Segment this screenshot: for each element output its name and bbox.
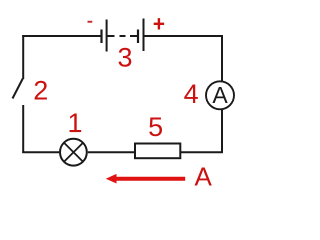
battery B (3): cell 1 short plate (negative) [100, 30, 102, 44]
svg-text:5: 5 [148, 112, 163, 142]
battery dash [120, 35, 126, 37]
lamp cross stroke 1 [64, 143, 83, 162]
lamp cross stroke 2 [64, 143, 83, 162]
lamp L (1) circle [60, 139, 87, 166]
svg-text:2: 2 [33, 76, 48, 106]
switch S blade [13, 79, 23, 99]
battery inner wire stub left [108, 35, 115, 37]
svg-text:4: 4 [184, 79, 199, 109]
wire top-right segment [144, 35, 223, 37]
svg-text:1: 1 [67, 108, 82, 138]
wire bottom middle segment (lamp to resistor) [88, 151, 135, 153]
wire top-left segment [22, 35, 100, 37]
battery cell 2 short plate [137, 30, 139, 44]
wire bottom-left segment [22, 151, 59, 153]
resistor R (5) body [135, 144, 180, 159]
wire left lower (below switch) [22, 105, 24, 153]
battery inner wire stub right [130, 35, 138, 37]
wire left upper (above switch) [22, 35, 24, 79]
wire bottom-right segment (resistor to corner) [180, 151, 223, 153]
svg-text:3: 3 [117, 43, 132, 73]
wire right lower (ammeter to corner) [221, 110, 223, 153]
plus polarity mark [154, 18, 164, 29]
battery cell 2 long plate (positive) [143, 19, 145, 52]
label 1 base bar [71, 130, 81, 132]
svg-text:A: A [212, 82, 228, 108]
wire right upper (corner to ammeter) [221, 35, 223, 81]
minus polarity mark [88, 21, 93, 23]
current direction arrow [106, 174, 185, 184]
battery cell 1 long plate [106, 20, 108, 52]
ammeter U (4) circle [206, 81, 234, 109]
svg-text:A: A [195, 161, 213, 191]
